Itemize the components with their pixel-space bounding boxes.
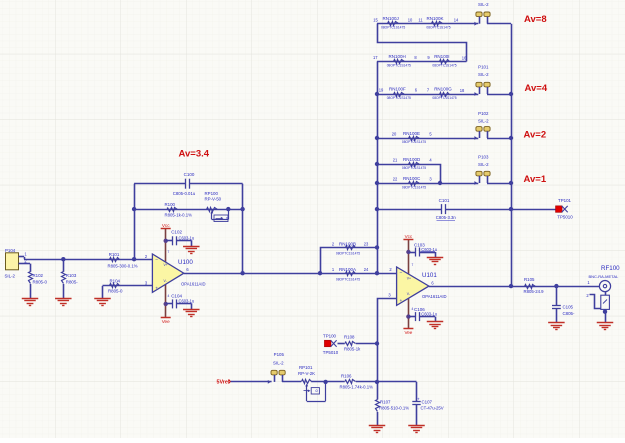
svg-text:21: 21 <box>393 158 398 163</box>
wire row2 <box>377 61 467 63</box>
wire row Av=8 left <box>377 23 478 25</box>
svg-text:RN100C: RN100C <box>403 176 421 181</box>
svg-text:4: 4 <box>168 294 170 298</box>
svg-text:V+: V+ <box>164 263 168 267</box>
resistor RN100H <box>387 54 411 68</box>
svg-text:TP100: TP100 <box>323 334 336 339</box>
wire TP100 to R108 <box>338 343 345 345</box>
svg-text:Av=8: Av=8 <box>524 14 547 25</box>
wire U101 output <box>429 286 600 288</box>
pin 3 U101 <box>388 293 391 298</box>
wire R108 to bus <box>356 343 377 345</box>
node junction C105 <box>554 284 558 288</box>
pin 1 RN100A <box>332 267 335 272</box>
wire ladder right bus <box>511 24 513 286</box>
svg-text:P104: P104 <box>5 248 16 253</box>
pin 2 P104 <box>24 258 27 263</box>
resistor RN100D <box>402 157 426 170</box>
pin 23 <box>364 241 369 246</box>
svg-text:C805-3.3n: C805-3.3n <box>436 215 457 220</box>
svg-text:C107: C107 <box>422 399 433 404</box>
potentiometer RP100 <box>205 191 230 222</box>
node junction R100 left <box>132 207 136 211</box>
svg-text:SIL-2: SIL-2 <box>478 72 489 77</box>
capacitor C103 <box>408 243 437 257</box>
svg-text:OPA1611AID: OPA1611AID <box>422 294 447 299</box>
connector P105 SIL-2 <box>271 352 285 382</box>
svg-text:24: 24 <box>364 267 369 272</box>
svg-text:RP-V-50: RP-V-50 <box>205 196 222 201</box>
node junction R103 <box>61 257 65 261</box>
resistor RN100C <box>402 176 426 189</box>
svg-text:R805-24.9: R805-24.9 <box>524 289 545 294</box>
svg-text:C603-1u: C603-1u <box>421 247 437 252</box>
resistor R103 <box>62 259 79 298</box>
svg-text:RP100: RP100 <box>205 191 219 196</box>
svg-text:Vcc: Vcc <box>405 234 413 239</box>
svg-text:RN100D: RN100D <box>403 157 421 162</box>
pin 17 <box>373 55 378 60</box>
wire row Av=1 right <box>487 183 511 185</box>
svg-text:R100: R100 <box>165 202 176 207</box>
svg-text:R107: R107 <box>380 400 391 405</box>
resistor R101 <box>108 252 138 268</box>
connector RF100 BNC <box>586 265 620 323</box>
resistor R108 <box>344 334 361 351</box>
node junction R100 right <box>240 207 244 211</box>
ground C105 <box>548 323 565 330</box>
svg-text:P102: P102 <box>478 111 489 116</box>
pin 4 <box>429 158 432 163</box>
pin 6 <box>415 87 418 92</box>
svg-text:TP5010: TP5010 <box>323 350 339 355</box>
node junction RP100 wiper <box>226 207 230 211</box>
svg-text:C805-0.01u: C805-0.01u <box>173 191 196 196</box>
ground C107 <box>408 426 425 433</box>
resistor R104 <box>108 278 123 293</box>
resistor R102 <box>29 264 48 299</box>
node junction right bus output <box>509 284 513 288</box>
node junction right bus row4 <box>509 136 513 140</box>
testpoint TP101 <box>556 198 574 219</box>
svg-text:RN100G: RN100G <box>434 87 452 92</box>
svg-text:22: 22 <box>393 177 398 182</box>
wire R104 row <box>103 286 153 299</box>
node junction left bus row7 <box>375 207 379 211</box>
wire U100 output to U101 <box>184 273 397 275</box>
pin 19 <box>379 87 384 92</box>
pin 20 <box>392 132 397 137</box>
pin 14 <box>454 18 459 23</box>
svg-text:08OPTC1S1475: 08OPTC1S1475 <box>432 96 456 100</box>
svg-text:RN100K: RN100K <box>427 16 444 21</box>
svg-text:RN100A: RN100A <box>339 267 356 272</box>
svg-text:18: 18 <box>460 88 465 93</box>
power Vee U101 <box>403 329 413 336</box>
pin 11 <box>418 18 423 23</box>
capacitor C102 <box>166 229 195 246</box>
svg-text:Av=4: Av=4 <box>525 83 548 94</box>
potentiometer RP101 <box>298 365 326 401</box>
resistor RN100K <box>426 16 450 29</box>
wire row Av=2 left <box>377 138 478 140</box>
svg-text:15: 15 <box>373 18 378 23</box>
node junction RP101 wiper <box>323 380 327 384</box>
label Av=2 <box>524 130 547 141</box>
resistor RN100I <box>432 54 456 68</box>
svg-text:SIL-2: SIL-2 <box>5 274 16 279</box>
svg-text:4: 4 <box>412 307 414 311</box>
port 5Vref <box>217 379 231 385</box>
wire row RN100D <box>378 165 441 184</box>
svg-text:Vee: Vee <box>162 319 170 324</box>
resistor RN100A <box>336 267 360 281</box>
svg-text:TP5010: TP5010 <box>557 215 573 220</box>
svg-text:OPA1611AID: OPA1611AID <box>181 281 206 286</box>
svg-text:16: 16 <box>462 55 467 60</box>
label Av=3.4 <box>179 149 210 160</box>
svg-text:RP101: RP101 <box>299 365 313 370</box>
svg-text:R104: R104 <box>110 278 121 283</box>
node junction left bus row6 <box>375 181 379 185</box>
svg-text:Vcc: Vcc <box>162 223 170 228</box>
svg-text:17: 17 <box>373 55 378 60</box>
svg-text:08OPTC1S1475: 08OPTC1S1475 <box>426 26 450 30</box>
capacitor C104 <box>166 293 195 309</box>
wire row Av=4 right <box>487 94 511 96</box>
wire row C101 left <box>377 209 441 211</box>
svg-text:P103: P103 <box>478 155 489 160</box>
testpoint TP100 <box>323 334 339 355</box>
svg-text:R805-1.74k-0.1%: R805-1.74k-0.1% <box>340 385 374 390</box>
connector P104 SIL-2 <box>5 248 31 279</box>
svg-text:SIL-2: SIL-2 <box>478 162 489 167</box>
pin 7 <box>427 87 430 92</box>
node junction left bus row4 <box>375 136 379 140</box>
svg-text:11: 11 <box>418 18 423 23</box>
pin 2 RN100B <box>332 241 335 246</box>
wire feedback top rail <box>134 183 243 185</box>
svg-text:7: 7 <box>168 250 170 254</box>
node junction left bus RN100A <box>375 271 379 275</box>
op-amp U101 <box>397 263 447 311</box>
ground C102 <box>183 247 200 254</box>
svg-text:Av=2: Av=2 <box>524 130 547 141</box>
svg-text:P101: P101 <box>478 65 489 70</box>
svg-text:R101: R101 <box>109 252 120 257</box>
power Vcc U101 <box>403 234 413 240</box>
svg-text:7: 7 <box>412 263 414 267</box>
wire row Av=8 right <box>487 23 511 25</box>
svg-text:RF100: RF100 <box>601 265 620 272</box>
svg-text:R805-0: R805-0 <box>108 288 123 293</box>
ground RF100 <box>597 323 614 330</box>
svg-text:C102: C102 <box>171 229 182 234</box>
wire RP101 to R106 <box>311 381 345 383</box>
node junction RN100D/C <box>438 181 442 185</box>
wire row Av=2 right <box>487 138 511 140</box>
svg-text:RN100H: RN100H <box>389 54 406 59</box>
svg-text:+: + <box>400 299 403 304</box>
pin 3 U100 <box>145 281 148 286</box>
capacitor C100 <box>173 172 196 196</box>
label Av=1 <box>524 174 547 185</box>
wire ladder segment row1-to-row2 <box>378 24 467 62</box>
svg-text:C101: C101 <box>439 198 450 203</box>
svg-text:08OPTC1S1475: 08OPTC1S1475 <box>336 277 360 281</box>
svg-text:RN100I: RN100I <box>434 54 449 59</box>
wire 5Vref to P105 <box>231 380 272 384</box>
svg-text:R105: R105 <box>524 277 535 282</box>
svg-text:5Vref: 5Vref <box>217 379 230 385</box>
svg-text:23: 23 <box>364 241 369 246</box>
pin 2 U100 <box>145 254 148 259</box>
svg-text:08OPTC1S1475: 08OPTC1S1475 <box>387 96 411 100</box>
wire U101 Vee stub <box>406 297 410 329</box>
wire U100 Vcc stub <box>164 229 168 263</box>
svg-text:R102: R102 <box>33 273 44 278</box>
wire input row <box>24 257 152 260</box>
wire row C101 right <box>445 209 511 211</box>
label Av=4 <box>525 83 548 94</box>
pin 22 <box>393 177 398 182</box>
ground R107 <box>369 426 386 433</box>
ground R103 <box>55 299 72 306</box>
node junction left bus row3 <box>375 92 379 96</box>
wire R100 row <box>134 209 243 211</box>
pin 21 <box>393 158 398 163</box>
pin 18 <box>460 88 465 93</box>
svg-text:R805-0: R805-0 <box>33 279 48 284</box>
svg-text:+: + <box>417 396 420 401</box>
svg-text:R805-510-0.1%: R805-510-0.1% <box>379 406 409 411</box>
label Av=8 <box>524 14 547 25</box>
svg-text:RN100B: RN100B <box>339 241 356 246</box>
svg-text:SIL-2: SIL-2 <box>478 118 489 123</box>
pin 2 U101 <box>389 267 392 272</box>
node junction right bus row6 <box>509 181 513 185</box>
svg-text:R805-1k-0.1%: R805-1k-0.1% <box>165 212 193 217</box>
wire row Av=1 left <box>377 183 478 185</box>
svg-text:08OPTC1S1475: 08OPTC1S1475 <box>432 63 456 67</box>
svg-text:R805-: R805- <box>66 279 78 284</box>
pin 16 <box>462 55 467 60</box>
svg-text:P105: P105 <box>274 352 285 357</box>
wire feedback right vertical <box>242 184 244 274</box>
svg-text:U101: U101 <box>422 272 437 279</box>
wire U100 Vee stub <box>164 284 168 318</box>
svg-text:10: 10 <box>408 18 413 23</box>
wire row Av=4 left <box>377 94 478 96</box>
pin 24 <box>364 267 369 272</box>
svg-text:08OPTC1S1475: 08OPTC1S1475 <box>381 26 405 30</box>
svg-text:08OPTC1S1475: 08OPTC1S1475 <box>402 166 426 170</box>
svg-text:C100: C100 <box>184 172 195 177</box>
svg-text:RN100E: RN100E <box>403 131 420 136</box>
svg-text:20: 20 <box>392 132 397 137</box>
svg-text:−: − <box>155 258 158 263</box>
svg-text:C105: C105 <box>563 304 574 309</box>
connector P101 SIL-2 <box>474 65 490 96</box>
ground C103 <box>427 258 444 265</box>
wire to TP101 <box>511 209 556 211</box>
svg-text:Vee: Vee <box>404 330 412 335</box>
capacitor C105 <box>552 286 575 323</box>
svg-text:08OPTC1S1475: 08OPTC1S1475 <box>402 185 426 189</box>
pin 5 <box>429 132 432 137</box>
wire ladder left bus <box>377 61 379 273</box>
capacitor C107 <box>412 396 444 425</box>
resistor R100 <box>165 202 193 217</box>
svg-text:08OPTC1S1475: 08OPTC1S1475 <box>402 140 426 144</box>
ground C106 <box>427 322 444 329</box>
svg-text:TP101: TP101 <box>558 198 571 203</box>
svg-text:RN100J: RN100J <box>383 16 399 21</box>
resistor R105 <box>524 277 545 294</box>
wire P105 to RP101 <box>282 381 301 383</box>
svg-text:19: 19 <box>379 87 384 92</box>
resistor RN100E <box>402 131 426 144</box>
svg-text:R805-300-0.1%: R805-300-0.1% <box>108 264 138 269</box>
resistor RN100B <box>336 241 360 255</box>
wire U101 pin3 <box>378 299 397 400</box>
svg-text:C603-1u: C603-1u <box>179 235 195 240</box>
svg-text:08OPTC1S1475: 08OPTC1S1475 <box>387 63 411 67</box>
node junction feedback/pin2 <box>132 257 136 261</box>
svg-text:V-: V- <box>407 292 410 296</box>
ground R104 <box>94 299 111 306</box>
resistor RN100J <box>381 16 405 29</box>
pin 10 <box>408 18 413 23</box>
svg-text:R108: R108 <box>344 334 355 339</box>
svg-text:R106: R106 <box>341 373 352 378</box>
connector SIL-2 (top) <box>474 2 490 26</box>
resistor R107 <box>376 400 410 426</box>
node junction right bus row7 <box>509 207 513 211</box>
svg-text:V+: V+ <box>407 276 411 280</box>
pin 15 <box>373 18 378 23</box>
node junction feedback tap <box>240 271 244 275</box>
svg-text:Av=1: Av=1 <box>524 174 547 185</box>
wire bus to C107 <box>377 382 417 402</box>
wire R106 to bus <box>356 381 377 383</box>
node junction RN100B/main <box>318 271 322 275</box>
op-amp U100 <box>152 250 205 298</box>
svg-text:RP-V-2K: RP-V-2K <box>298 371 315 376</box>
svg-text:C805-: C805- <box>563 311 575 316</box>
svg-text:R805-1k: R805-1k <box>344 346 361 351</box>
svg-text:SIL-2: SIL-2 <box>478 2 489 7</box>
svg-text:−: − <box>400 272 403 277</box>
node junction left bus RN100B <box>375 245 379 249</box>
svg-text:BNC-RA-METAL: BNC-RA-METAL <box>589 274 619 279</box>
node junction BNC shield <box>603 310 607 314</box>
wire RN100B row <box>321 248 378 274</box>
svg-text:Av=3.4: Av=3.4 <box>179 149 210 160</box>
svg-text:U100: U100 <box>178 259 193 266</box>
svg-text:V-: V- <box>164 279 167 283</box>
svg-text:RN100F: RN100F <box>389 87 406 92</box>
pin 3 <box>429 177 432 182</box>
svg-text:CT-47u-25V: CT-47u-25V <box>421 406 444 411</box>
wire feedback left vertical <box>134 184 136 260</box>
resistor RN100F <box>387 87 411 100</box>
power Vee U100 <box>161 318 171 324</box>
resistor R106 <box>340 373 374 389</box>
node junction R108 row <box>375 341 379 345</box>
node junction right bus row3 <box>509 92 513 96</box>
svg-text:08OPTC1S1475: 08OPTC1S1475 <box>336 252 360 256</box>
node junction R106 row <box>375 380 379 384</box>
svg-text:R103: R103 <box>66 273 77 278</box>
node junction left bus row5 <box>375 162 379 166</box>
svg-text:14: 14 <box>454 18 459 23</box>
pin 9 <box>427 55 430 60</box>
svg-text:+: + <box>155 287 158 292</box>
connector P103 SIL-2 <box>474 155 490 185</box>
capacitor C101 <box>436 198 457 220</box>
resistor RN100G <box>432 87 456 100</box>
connector P102 SIL-2 <box>474 111 490 140</box>
ground R102 <box>22 299 39 306</box>
svg-text:SIL-2: SIL-2 <box>273 360 284 365</box>
pin 8 <box>414 55 417 60</box>
capacitor C106 <box>408 307 437 321</box>
pin 1 P104 <box>24 252 27 257</box>
wire U101 Vcc stub <box>406 239 410 275</box>
ground C104 <box>183 310 200 317</box>
power Vcc U100 <box>161 223 171 228</box>
